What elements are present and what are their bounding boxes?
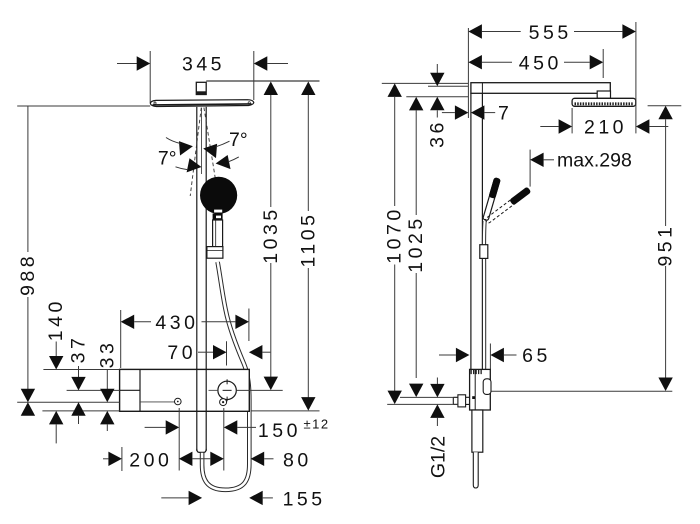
dim 70 arrow at body edge bbox=[249, 345, 263, 359]
dim 988 arrow up (opposed) bbox=[21, 402, 35, 416]
dim 1025 line upper bbox=[415, 110, 417, 215]
mixer body front bbox=[120, 369, 250, 411]
dim 210 ext right bbox=[635, 22, 637, 133]
dim 450 left arrow bbox=[468, 55, 482, 69]
hand shower hose side bbox=[482, 221, 487, 369]
ref line arm top left bbox=[382, 82, 469, 84]
7deg lower left arrow bbox=[187, 158, 203, 174]
dim 7 arrow left bbox=[455, 105, 469, 119]
spray cone dashed left bbox=[190, 108, 201, 197]
shower arm side bbox=[471, 83, 610, 94]
svg-text:210: 210 bbox=[584, 116, 627, 138]
dim 36 arrow up bbox=[430, 97, 444, 111]
dim 1105 arrow up bbox=[301, 82, 315, 96]
dim 450 left tail bbox=[482, 61, 512, 63]
svg-text:max.298: max.298 bbox=[557, 150, 632, 172]
hand shower side dashed handle bbox=[485, 187, 531, 223]
dim 200 arrow right bbox=[179, 452, 193, 466]
dim 1035 arrow down bbox=[264, 377, 278, 391]
spray axis line bbox=[201, 108, 203, 174]
dim 200 left tail bbox=[103, 458, 108, 460]
ref line body bottom left bbox=[42, 410, 119, 412]
dim 140 line lower tail bbox=[55, 424, 57, 443]
svg-text:140: 140 bbox=[45, 298, 67, 341]
valve tick bottom bbox=[226, 397, 228, 402]
dim 1035 line bbox=[270, 95, 272, 207]
svg-text:65: 65 bbox=[522, 345, 551, 367]
svg-text:±12: ±12 bbox=[304, 416, 330, 431]
select button side bbox=[483, 379, 491, 395]
bar over body left bbox=[196, 369, 198, 411]
dim 1070 arrow down bbox=[388, 391, 402, 405]
ref line supply top bbox=[400, 396, 453, 398]
dim 345 extension line right bbox=[253, 51, 255, 100]
dim 155 arrow left bbox=[189, 491, 203, 505]
dim 200/80 middle tail bbox=[192, 458, 210, 460]
svg-text:1070: 1070 bbox=[384, 206, 406, 263]
dim 200 arrow bbox=[108, 452, 122, 466]
dim G12 upper tail bbox=[436, 378, 438, 385]
spray cone dashed right bbox=[204, 108, 216, 182]
body cap center line bbox=[120, 389, 140, 391]
lower outlet stub side bbox=[472, 410, 483, 452]
dim 345 left tail bbox=[117, 63, 137, 65]
dim 345 right arrow bbox=[254, 56, 267, 70]
dim max298 tail bbox=[544, 159, 554, 161]
dim 345 extension line left bbox=[149, 51, 151, 103]
supply pipe end cap bbox=[452, 397, 454, 404]
dim 150 arrow right bbox=[224, 420, 238, 434]
head connector side bbox=[597, 91, 610, 98]
shower bar front left edge bbox=[196, 107, 198, 451]
ext line cold supply bbox=[223, 408, 225, 471]
svg-text:345: 345 bbox=[182, 53, 225, 75]
dim 150 right tail bbox=[237, 426, 256, 428]
dim 555 left tail bbox=[482, 31, 521, 33]
hand shower hose front bbox=[202, 262, 249, 490]
dim 65 arrow left bbox=[456, 348, 470, 362]
dim 65 right tail bbox=[504, 354, 517, 356]
svg-text:555: 555 bbox=[529, 22, 572, 44]
svg-text:7°: 7° bbox=[158, 148, 177, 170]
bar holder bracket side bbox=[480, 245, 488, 259]
svg-text:1035: 1035 bbox=[260, 206, 282, 263]
dim 65 left tail bbox=[439, 354, 456, 356]
dim 37 line upper bbox=[78, 366, 80, 378]
dim 210 right tail bbox=[649, 126, 668, 128]
dim 33 line upper bbox=[106, 369, 108, 389]
dim 36 upper tail bbox=[436, 64, 438, 73]
valve left line bbox=[209, 389, 218, 391]
svg-text:7: 7 bbox=[498, 103, 509, 125]
dim 155 right tail bbox=[263, 497, 273, 499]
dim 33 line lower tail bbox=[106, 424, 108, 431]
bracket mid line bbox=[207, 249, 223, 251]
supply pipe bottom line bbox=[453, 403, 469, 405]
dim 210 ext left bbox=[571, 108, 573, 133]
wall reference line bbox=[467, 28, 469, 118]
shower head connector front bbox=[196, 82, 206, 94]
hose attachment dot bbox=[472, 396, 475, 399]
dim 555 left arrow bbox=[468, 24, 482, 38]
svg-text:1105: 1105 bbox=[297, 212, 319, 268]
dim 1070 line upper bbox=[394, 97, 396, 206]
valve tick top bbox=[226, 379, 228, 384]
dim 345 right tail bbox=[267, 63, 288, 65]
dim 430 left tail bbox=[134, 321, 151, 323]
dim 150 arrow left bbox=[166, 420, 180, 434]
dim 140 line upper bbox=[55, 342, 57, 357]
dim 951 line lower bbox=[665, 266, 667, 378]
svg-text:155: 155 bbox=[283, 489, 326, 511]
dim 70 ext line bbox=[226, 341, 228, 365]
handle inner line bbox=[215, 220, 217, 247]
valve center dash bbox=[223, 389, 232, 391]
hand shower side solid head bbox=[488, 177, 500, 199]
disc underside band bbox=[153, 104, 252, 105]
valve circle bbox=[218, 381, 236, 399]
dim 33 arrow down bbox=[100, 389, 114, 403]
hand shower handle front bbox=[213, 220, 223, 247]
dim 155 left tail bbox=[161, 497, 188, 499]
hose spout side bbox=[473, 452, 478, 488]
disc right end cap circle bbox=[248, 102, 250, 104]
dim 951 arrow down bbox=[658, 378, 672, 392]
dim 430 ext line right bbox=[248, 309, 250, 342]
ref line body bottom right bbox=[251, 410, 319, 412]
valve center reference line right bbox=[236, 389, 282, 391]
dim 37 arrow down bbox=[71, 377, 85, 390]
disc left end cap circle bbox=[154, 102, 156, 104]
collar white dash bbox=[216, 216, 221, 219]
ext line body left bottom bbox=[121, 447, 123, 471]
dim 1035 arrow up bbox=[264, 82, 278, 96]
dim 1105 line lower bbox=[307, 268, 309, 398]
svg-text:200: 200 bbox=[129, 449, 172, 471]
bar holder bracket front bbox=[207, 247, 223, 259]
bar over body right bbox=[205, 369, 207, 411]
7deg lower right arrow bbox=[215, 155, 231, 171]
body left cap divider bbox=[139, 369, 141, 411]
dim 555 right arrow bbox=[622, 24, 636, 38]
dim 70 right tail bbox=[262, 351, 270, 353]
dim 1025 line lower bbox=[415, 273, 417, 378]
mixer block side bbox=[470, 369, 491, 410]
top reference line bbox=[206, 80, 319, 82]
ref line outlet center left bbox=[17, 401, 119, 403]
bar side front edge bbox=[481, 93, 483, 369]
ref line outlet right bbox=[491, 390, 673, 392]
hand shower head notch bbox=[214, 210, 222, 213]
dim 450 right tail bbox=[564, 61, 590, 63]
dim 430 line right bbox=[202, 321, 236, 323]
disc side spray face dots bbox=[575, 102, 634, 105]
dim 80 arrow right bbox=[251, 452, 265, 466]
arm bracket divider bbox=[481, 83, 483, 94]
dim 1105 line bbox=[307, 95, 309, 211]
dim 80 arrow left bbox=[210, 452, 224, 466]
dim 951 line upper bbox=[665, 119, 667, 226]
select pictogram dot bbox=[222, 401, 224, 403]
dim 37 arrow up bbox=[71, 402, 85, 416]
dim 1025 arrow up bbox=[409, 97, 423, 111]
svg-text:G1/2: G1/2 bbox=[427, 436, 449, 478]
7deg leader arc from lower text bbox=[176, 167, 189, 170]
dim 1035 line lower bbox=[270, 263, 272, 377]
dim 70 arrow at valve center bbox=[213, 345, 227, 359]
dim 210 arrow left bbox=[559, 119, 573, 133]
bar side rear edge bbox=[470, 93, 472, 369]
ref line disc bottom right bbox=[648, 105, 682, 107]
7deg upper right arrow bbox=[202, 142, 218, 158]
svg-text:7°: 7° bbox=[229, 129, 248, 151]
dim G12 arrow down bbox=[430, 384, 444, 398]
dim 150 left tail bbox=[145, 426, 166, 428]
ref line body top left bbox=[43, 369, 119, 371]
dim 7 right tail bbox=[484, 112, 495, 114]
body lower line bbox=[140, 401, 174, 403]
7deg leader arc lower-right bbox=[228, 157, 239, 162]
dim 988 line upper bbox=[27, 106, 29, 252]
svg-text:70: 70 bbox=[167, 342, 196, 364]
dim 430 arrow left bbox=[121, 315, 135, 329]
dim 80 right tail bbox=[264, 458, 273, 460]
dim 140 arrow up bbox=[49, 411, 63, 425]
block knurl band bbox=[471, 370, 483, 374]
svg-text:450: 450 bbox=[519, 52, 562, 74]
temperature pictogram circle bbox=[175, 398, 182, 405]
hand shower head front (black circle) bbox=[200, 177, 237, 214]
svg-text:36: 36 bbox=[426, 119, 448, 148]
hand shower side dashed head bbox=[509, 187, 531, 206]
dim 70 line left bbox=[198, 351, 213, 353]
overhead shower disc front bbox=[150, 100, 254, 107]
dim 1070 arrow up bbox=[388, 83, 402, 97]
dim 1070 line lower bbox=[394, 265, 396, 392]
svg-text:951: 951 bbox=[655, 223, 677, 266]
dim 345 left arrow bbox=[137, 56, 151, 70]
overhead disc side bbox=[572, 98, 636, 106]
ref line bar top left bbox=[406, 96, 468, 98]
block inner divider bbox=[474, 369, 476, 410]
dim max298 arrow bbox=[530, 153, 544, 167]
ref line arm bottom bbox=[428, 85, 468, 87]
svg-text:150: 150 bbox=[258, 420, 301, 442]
dim G12 lower tail bbox=[436, 418, 438, 426]
select pictogram circle bbox=[220, 399, 227, 406]
dim 155 arrow right bbox=[249, 491, 263, 505]
ref line head bottom left bbox=[17, 105, 150, 107]
svg-text:430: 430 bbox=[155, 312, 198, 334]
hand shower collar front bbox=[213, 213, 223, 220]
dim 430 arrow right bbox=[235, 315, 249, 329]
svg-text:1025: 1025 bbox=[405, 215, 427, 272]
dim 555 right tail bbox=[574, 31, 622, 33]
svg-text:37: 37 bbox=[68, 335, 90, 364]
7deg leader arc to upper text bbox=[216, 141, 230, 147]
ref line valve center left bbox=[67, 389, 120, 391]
dim 951 arrow up bbox=[658, 106, 672, 120]
temperature pictogram dot bbox=[177, 401, 179, 403]
shower bar front right edge bbox=[205, 107, 207, 451]
dim 430 ext line left bbox=[120, 310, 122, 368]
ref line supply bottom bbox=[387, 403, 458, 405]
dim 140 arrow down bbox=[49, 356, 63, 370]
dim 65 ext line right bbox=[489, 344, 491, 370]
dim 7 arrow right bbox=[471, 105, 485, 119]
dim 210 left tail bbox=[540, 126, 558, 128]
dim 36 arrow down bbox=[430, 73, 444, 87]
dim max298 ext line bbox=[529, 150, 531, 187]
dim 37 line lower tail bbox=[78, 416, 80, 424]
dim 1025 arrow down bbox=[409, 384, 423, 398]
svg-text:988: 988 bbox=[17, 253, 39, 296]
dim 988 arrow down bbox=[21, 389, 35, 403]
supply pipe top line bbox=[453, 396, 469, 398]
dim 65 arrow right bbox=[490, 348, 504, 362]
dim 7 left tail bbox=[442, 112, 455, 114]
ext line hot supply bbox=[178, 408, 180, 471]
dim 450 right arrow bbox=[590, 55, 604, 69]
svg-text:33: 33 bbox=[96, 340, 118, 369]
hand shower side solid handle bbox=[483, 178, 500, 221]
connector dark band bbox=[196, 91, 206, 94]
dim 1105 arrow down bbox=[301, 397, 315, 411]
svg-text:80: 80 bbox=[283, 449, 312, 471]
dim G12 arrow up bbox=[430, 404, 444, 418]
bar bottom cap bbox=[197, 449, 206, 453]
dim 36 lower tail bbox=[436, 110, 438, 117]
dim 988 line lower bbox=[27, 297, 29, 389]
dim 450 ext line bbox=[602, 49, 604, 78]
dim 210 arrow right bbox=[636, 119, 650, 133]
7deg upper left arrow bbox=[178, 139, 194, 155]
supply nut bbox=[458, 395, 466, 407]
7deg leader arc upper-left bbox=[166, 138, 181, 144]
dim 33 arrow up bbox=[100, 411, 114, 425]
